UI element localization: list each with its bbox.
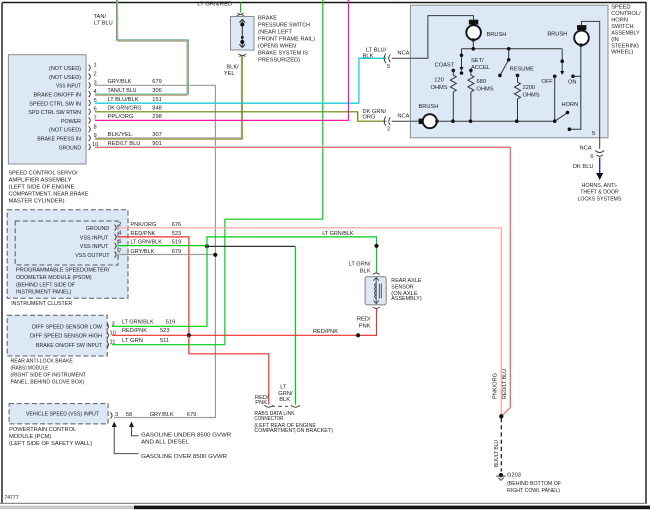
wire LT BLU/BLK 151 servo pin 5 to NCA connector <box>95 58 386 103</box>
NCA jumper wire from LT BLU/BLK connector into switch assembly <box>392 57 411 59</box>
wire TAN/LT BLU 306 from top to servo pin 4 <box>94 0 189 95</box>
RABS caption <box>11 358 87 385</box>
svg-text:COMPARTMENT, NEAR BRAKE: COMPARTMENT, NEAR BRAKE <box>9 192 89 198</box>
svg-text:LT GRN/RED: LT GRN/RED <box>197 2 232 8</box>
svg-text:511: 511 <box>160 338 169 344</box>
RABS pin brackets and numbers <box>107 323 109 347</box>
RABS module dashed box <box>7 315 107 356</box>
wire PNK/ORG 676 PSOM pin 2 to splice S411 <box>117 228 501 416</box>
ground G203 <box>496 472 561 494</box>
connector NCA below switch assembly <box>579 146 604 161</box>
splice S411 node <box>493 369 508 418</box>
resume switch arm <box>498 49 534 77</box>
rear axle sensor caption <box>391 278 421 302</box>
RABS data link connector caption <box>254 411 333 434</box>
wire RED/LT BLU 901 servo pin 10 to splice S411 <box>95 146 511 416</box>
speed control servo/amplifier assembly box <box>8 55 86 164</box>
servo assembly caption <box>9 171 89 205</box>
svg-text:GROUND: GROUND <box>59 145 81 151</box>
svg-text:RIGHT COWL PANEL): RIGHT COWL PANEL) <box>507 488 560 494</box>
svg-text:ASSEMBLY: ASSEMBLY <box>611 31 640 37</box>
gasoline under 8500 gvwr callout <box>129 422 231 446</box>
svg-text:INSTRUMENT PANEL): INSTRUMENT PANEL) <box>16 290 71 296</box>
svg-text:TAN/: TAN/ <box>94 14 107 20</box>
wire LT GRN 511 RABS pin 11 <box>112 344 225 346</box>
svg-text:5: 5 <box>592 131 595 137</box>
svg-text:PNK: PNK <box>359 323 371 329</box>
svg-text:INSTRUMENT CLUSTER: INSTRUMENT CLUSTER <box>11 301 72 307</box>
svg-text:4: 4 <box>94 89 97 95</box>
svg-text:BRAKE ON/OFF IN: BRAKE ON/OFF IN <box>34 93 82 99</box>
svg-text:2200: 2200 <box>523 85 536 91</box>
right brush lower wire to on contact and horn contact <box>568 45 581 131</box>
wire BLK/LT BLU dashed to ground G203 <box>494 418 501 472</box>
svg-text:VSS INPUT: VSS INPUT <box>80 244 109 250</box>
svg-text:RESUME: RESUME <box>510 67 535 73</box>
svg-text:MODULE (PCM): MODULE (PCM) <box>9 434 51 440</box>
svg-text:GROUND: GROUND <box>86 226 110 232</box>
svg-text:ACCEL: ACCEL <box>471 65 490 71</box>
wire GRY/BLK 679 PSOM pin 7 to junction on gray vertical <box>118 253 218 257</box>
svg-text:RED/LT BLU: RED/LT BLU <box>108 141 141 147</box>
svg-text:(NOT USED): (NOT USED) <box>49 66 81 72</box>
svg-text:BRUSH: BRUSH <box>487 32 507 38</box>
svg-text:SENSOR: SENSOR <box>391 285 413 291</box>
svg-text:BRAKE: BRAKE <box>258 16 277 22</box>
svg-text:680: 680 <box>477 79 487 85</box>
svg-text:LOCKS SYSTEMS: LOCKS SYSTEMS <box>578 196 622 202</box>
svg-text:4: 4 <box>118 230 121 236</box>
svg-text:COAST: COAST <box>435 63 455 69</box>
svg-text:FRONT FRAME RAIL): FRONT FRAME RAIL) <box>258 37 315 43</box>
svg-text:CONTROL/: CONTROL/ <box>611 11 641 17</box>
svg-text:RED/PNK: RED/PNK <box>313 329 338 335</box>
svg-text:YEL: YEL <box>224 71 235 77</box>
svg-text:DIFF SPEED SENSOR LOW: DIFF SPEED SENSOR LOW <box>32 325 103 331</box>
svg-text:74777: 74777 <box>5 495 19 501</box>
svg-text:SPEED CONTROL SERVO/: SPEED CONTROL SERVO/ <box>9 171 78 177</box>
connector NCA on LT BLU/BLK wire <box>363 47 410 70</box>
svg-text:2: 2 <box>118 222 121 228</box>
svg-text:2: 2 <box>94 72 97 78</box>
svg-text:306: 306 <box>152 88 162 94</box>
svg-text:REAR AXLE: REAR AXLE <box>391 278 421 284</box>
wire LT GRN/RED right vertical down to node with LT GRN 511 <box>225 0 323 345</box>
svg-text:679: 679 <box>187 412 197 418</box>
svg-text:VSS OUTPUT: VSS OUTPUT <box>75 253 110 259</box>
svg-text:VSS INPUT: VSS INPUT <box>80 235 109 241</box>
svg-text:PRESSURIZED): PRESSURIZED) <box>258 58 300 64</box>
svg-text:OHMS: OHMS <box>523 93 540 99</box>
svg-text:8: 8 <box>94 124 97 130</box>
svg-text:BLK: BLK <box>363 53 374 59</box>
PSOM pin brackets and numbers <box>115 225 117 258</box>
svg-text:(NOT USED): (NOT USED) <box>49 75 81 81</box>
PSOM module dashed box <box>15 221 118 265</box>
wire PPL/ORG 298 servo pin 7 up to top edge <box>95 0 349 120</box>
svg-text:REAR ANTI-LOCK BRAKE: REAR ANTI-LOCK BRAKE <box>11 358 74 364</box>
svg-text:9: 9 <box>94 133 97 139</box>
svg-text:307: 307 <box>152 132 162 138</box>
svg-text:848: 848 <box>152 106 162 112</box>
PSOM wire value labels <box>130 222 181 255</box>
svg-text:LT GRN/BLK: LT GRN/BLK <box>122 319 154 325</box>
wire RED/PNK 523 branch to RABS data link connector <box>189 335 269 404</box>
RABS wire value labels <box>122 319 175 344</box>
wire LT GRN/BLK 519 black tracer branch to RABS data link <box>207 246 296 404</box>
NCA jumper wire from DK GRN/ORG connector into switch assembly <box>392 120 411 122</box>
svg-text:(BEHIND LEFT SIDE OF: (BEHIND LEFT SIDE OF <box>16 283 76 289</box>
svg-text:OFF: OFF <box>541 79 553 85</box>
svg-text:NCA: NCA <box>397 114 409 120</box>
wire LT GRN/BLK 519 PSOM pin 5 to junction <box>118 244 210 248</box>
svg-text:GASOLINE OVER 8500 GVWR: GASOLINE OVER 8500 GVWR <box>141 454 227 460</box>
svg-text:1: 1 <box>94 63 97 69</box>
instrument cluster dashed box <box>7 210 128 307</box>
svg-text:(OPENS WHEN: (OPENS WHEN <box>258 44 296 50</box>
svg-text:SPEED CTRL SW IN: SPEED CTRL SW IN <box>29 101 81 107</box>
svg-text:(RABS) MODULE: (RABS) MODULE <box>11 365 49 371</box>
svg-text:BLK/: BLK/ <box>226 65 239 71</box>
svg-text:519: 519 <box>166 319 176 325</box>
svg-text:VSS INPUT: VSS INPUT <box>56 84 81 90</box>
svg-text:ODOMETER MODULE (PSOM): ODOMETER MODULE (PSOM) <box>16 275 92 281</box>
svg-text:LT GRN/BLK: LT GRN/BLK <box>130 240 162 246</box>
RABS data link connector wire ends <box>255 385 300 407</box>
wire LT GRN/RED at top to brake pressure switch <box>197 2 244 17</box>
svg-text:DK BLU: DK BLU <box>573 164 594 170</box>
svg-text:GASOLINE UNDER 8500 GVWR: GASOLINE UNDER 8500 GVWR <box>141 433 231 439</box>
svg-text:BRAKE SYSTEM IS: BRAKE SYSTEM IS <box>258 51 308 57</box>
svg-text:SPD CTRL SW RTRN: SPD CTRL SW RTRN <box>28 110 81 116</box>
connector NCA on DK GRN/ORG wire <box>363 109 410 133</box>
coast/set-accel switch arm <box>435 49 490 75</box>
wire from NCA to top-left brush commutator <box>410 16 473 59</box>
svg-text:10: 10 <box>110 330 116 336</box>
svg-text:OHMS: OHMS <box>430 85 447 91</box>
svg-text:PNK/ORG: PNK/ORG <box>130 222 156 228</box>
svg-text:LT BLU: LT BLU <box>94 21 113 27</box>
svg-text:HORN: HORN <box>562 102 579 108</box>
svg-text:BLK: BLK <box>279 397 290 403</box>
svg-text:ORG: ORG <box>363 114 376 120</box>
svg-text:5: 5 <box>387 64 390 70</box>
svg-text:120: 120 <box>434 78 444 84</box>
rear axle sensor labels LT GRN/BLK <box>349 262 371 275</box>
svg-text:7: 7 <box>94 116 97 122</box>
svg-text:679: 679 <box>152 79 162 85</box>
svg-text:LT GRN: LT GRN <box>122 338 143 344</box>
svg-text:GRY/BLK: GRY/BLK <box>108 79 132 85</box>
svg-text:HORN: HORN <box>611 18 628 24</box>
svg-text:LT: LT <box>280 385 287 391</box>
svg-text:(RIGHT SIDE OF INSTRUMENT: (RIGHT SIDE OF INSTRUMENT <box>11 373 87 379</box>
svg-text:LT BLU/BLK: LT BLU/BLK <box>108 97 139 103</box>
svg-text:HORNS, ANTI-: HORNS, ANTI- <box>582 183 618 189</box>
svg-text:RED/: RED/ <box>357 317 371 323</box>
brush (top left) <box>466 20 506 49</box>
servo wire value labels <box>108 79 162 147</box>
svg-text:MASTER CYLINDER): MASTER CYLINDER) <box>9 199 65 205</box>
svg-text:PANEL, BEHIND GLOVE BOX): PANEL, BEHIND GLOVE BOX) <box>11 380 85 386</box>
svg-text:PNK: PNK <box>255 400 267 406</box>
svg-text:7: 7 <box>118 249 121 255</box>
svg-text:GRY/BLK: GRY/BLK <box>150 412 174 418</box>
svg-text:ASSEMBLY): ASSEMBLY) <box>391 296 421 302</box>
svg-text:(LEFT SIDE OF ENGINE: (LEFT SIDE OF ENGINE <box>9 185 75 191</box>
svg-text:PROGRAMMABLE SPEEDOMETER/: PROGRAMMABLE SPEEDOMETER/ <box>16 268 110 274</box>
svg-text:AMPLIFIER ASSEMBLY: AMPLIFIER ASSEMBLY <box>9 178 72 184</box>
svg-text:TAN/LT BLU: TAN/LT BLU <box>108 88 137 94</box>
svg-text:BRAKE PRESS IN: BRAKE PRESS IN <box>37 137 81 143</box>
svg-text:THEFT & DOOR: THEFT & DOOR <box>580 190 619 196</box>
svg-text:10: 10 <box>92 142 98 148</box>
svg-text:2: 2 <box>387 126 390 132</box>
brake pressure switch caption <box>258 16 315 64</box>
svg-text:RED/PNK: RED/PNK <box>122 328 147 334</box>
svg-text:DIFF SPEED SENSOR HIGH: DIFF SPEED SENSOR HIGH <box>30 334 102 340</box>
wire RED/PNK 523 rear axle sensor to RABS pin 10 <box>112 309 377 337</box>
svg-text:WHEEL): WHEEL) <box>611 50 633 56</box>
svg-text:STEERING: STEERING <box>611 43 639 49</box>
svg-text:DK GRN/ORG: DK GRN/ORG <box>108 106 142 112</box>
bottom bus wire inside switch assembly <box>438 119 557 123</box>
svg-text:BLK/LT BLU: BLK/LT BLU <box>494 440 500 467</box>
svg-text:ON: ON <box>568 80 577 86</box>
svg-text:3: 3 <box>112 321 115 327</box>
svg-text:(NOT USED): (NOT USED) <box>49 128 81 134</box>
svg-text:SWITCH: SWITCH <box>611 24 633 30</box>
svg-text:NCA: NCA <box>397 51 409 57</box>
svg-text:CONNECTOR: CONNECTOR <box>254 416 283 422</box>
wire GRY/BLK 679 servo pin 3 down to PCM pin 3 <box>95 85 215 417</box>
wire DK BLU to horns systems <box>573 158 603 181</box>
horn switch arm <box>555 102 579 121</box>
svg-text:3: 3 <box>115 412 118 418</box>
svg-text:POWER: POWER <box>61 119 81 125</box>
svg-text:58: 58 <box>126 412 132 418</box>
PCM caption <box>9 427 92 447</box>
right brush top wire to pin 5 exit <box>582 21 600 148</box>
svg-text:OHMS: OHMS <box>477 87 494 93</box>
svg-text:POWERTRAIN CONTROL: POWERTRAIN CONTROL <box>9 427 76 433</box>
PCM dashed box <box>9 404 108 424</box>
svg-text:151: 151 <box>152 97 162 103</box>
svg-text:BLK/YEL: BLK/YEL <box>108 132 133 138</box>
brush (bottom left) <box>410 104 438 128</box>
svg-text:(LEFT SIDE OF SAFETY WALL): (LEFT SIDE OF SAFETY WALL) <box>9 441 92 447</box>
resistor 2200 ohms <box>515 74 540 122</box>
brush (top right) <box>547 25 588 47</box>
svg-text:BRUSH: BRUSH <box>547 32 567 38</box>
wire DK GRN/ORG 848 servo pin 6 to NCA connector <box>95 112 386 121</box>
svg-text:BRUSH: BRUSH <box>419 104 439 110</box>
svg-text:PRESSURE SWITCH: PRESSURE SWITCH <box>258 23 310 29</box>
svg-text:6: 6 <box>94 107 97 113</box>
svg-text:SET/: SET/ <box>471 58 484 64</box>
svg-text:LT GRN/: LT GRN/ <box>349 262 371 268</box>
PCM pin bracket and number <box>110 412 196 419</box>
svg-text:676: 676 <box>172 222 182 228</box>
resistor 680 ohms <box>468 69 494 122</box>
svg-text:AND ALL DIESEL: AND ALL DIESEL <box>141 440 189 446</box>
servo pin brackets and numbers 1-10 <box>89 65 91 150</box>
PSOM caption <box>16 268 110 296</box>
svg-text:COMPARTMENT,ON BRACKET): COMPARTMENT,ON BRACKET) <box>254 428 333 434</box>
gasoline over 8500 gvwr callout <box>112 422 227 460</box>
brake pressure switch <box>231 17 255 57</box>
label horns anti-theft systems <box>578 183 622 202</box>
wire RED/PNK 523 PSOM pin 4 down to RABS pin 10 wire <box>118 237 189 335</box>
wire LT GRN/BLK 519 net: vertical to RABS pin 3 and horizontal to rear axle sensor <box>112 231 379 326</box>
svg-text:BRAKE ON/OFF SW INPUT: BRAKE ON/OFF SW INPUT <box>36 343 102 349</box>
svg-text:5: 5 <box>118 239 121 245</box>
svg-text:LT GRN/BLK: LT GRN/BLK <box>322 231 353 237</box>
svg-text:3: 3 <box>94 80 97 86</box>
svg-text:BLK: BLK <box>360 268 371 274</box>
svg-text:(BEHIND BOTTOM OF: (BEHIND BOTTOM OF <box>507 481 561 487</box>
switch assembly caption <box>611 4 641 55</box>
svg-text:RED/LT BLU: RED/LT BLU <box>502 369 508 399</box>
svg-text:298: 298 <box>152 114 162 120</box>
svg-text:(NEAR LEFT: (NEAR LEFT <box>258 30 293 36</box>
svg-text:VEHICLE SPEED (VSS) INPUT: VEHICLE SPEED (VSS) INPUT <box>26 412 99 418</box>
svg-text:GRN/: GRN/ <box>278 391 293 397</box>
svg-text:G203: G203 <box>507 472 521 478</box>
off/on switch arm <box>541 49 580 86</box>
svg-text:PNK/ORG: PNK/ORG <box>493 373 499 399</box>
svg-text:901: 901 <box>152 141 162 147</box>
svg-text:523: 523 <box>160 328 170 334</box>
wire BLK/YEL 307 from brake pressure switch to servo pin 9 <box>95 56 243 140</box>
svg-text:PPL/ORG: PPL/ORG <box>108 114 134 120</box>
svg-text:519: 519 <box>172 240 182 246</box>
svg-text:5: 5 <box>94 98 97 104</box>
svg-text:6: 6 <box>590 154 593 160</box>
resistor 120 ohms <box>430 69 456 122</box>
off contact vertical wire <box>554 76 556 121</box>
top bus wire inside switch assembly <box>462 47 563 51</box>
svg-text:(IN: (IN <box>611 37 619 43</box>
svg-text:NCA: NCA <box>579 146 591 152</box>
speed control/horn switch assembly box <box>410 5 608 138</box>
svg-text:SPEED: SPEED <box>611 4 630 10</box>
rear axle sensor <box>365 273 386 309</box>
